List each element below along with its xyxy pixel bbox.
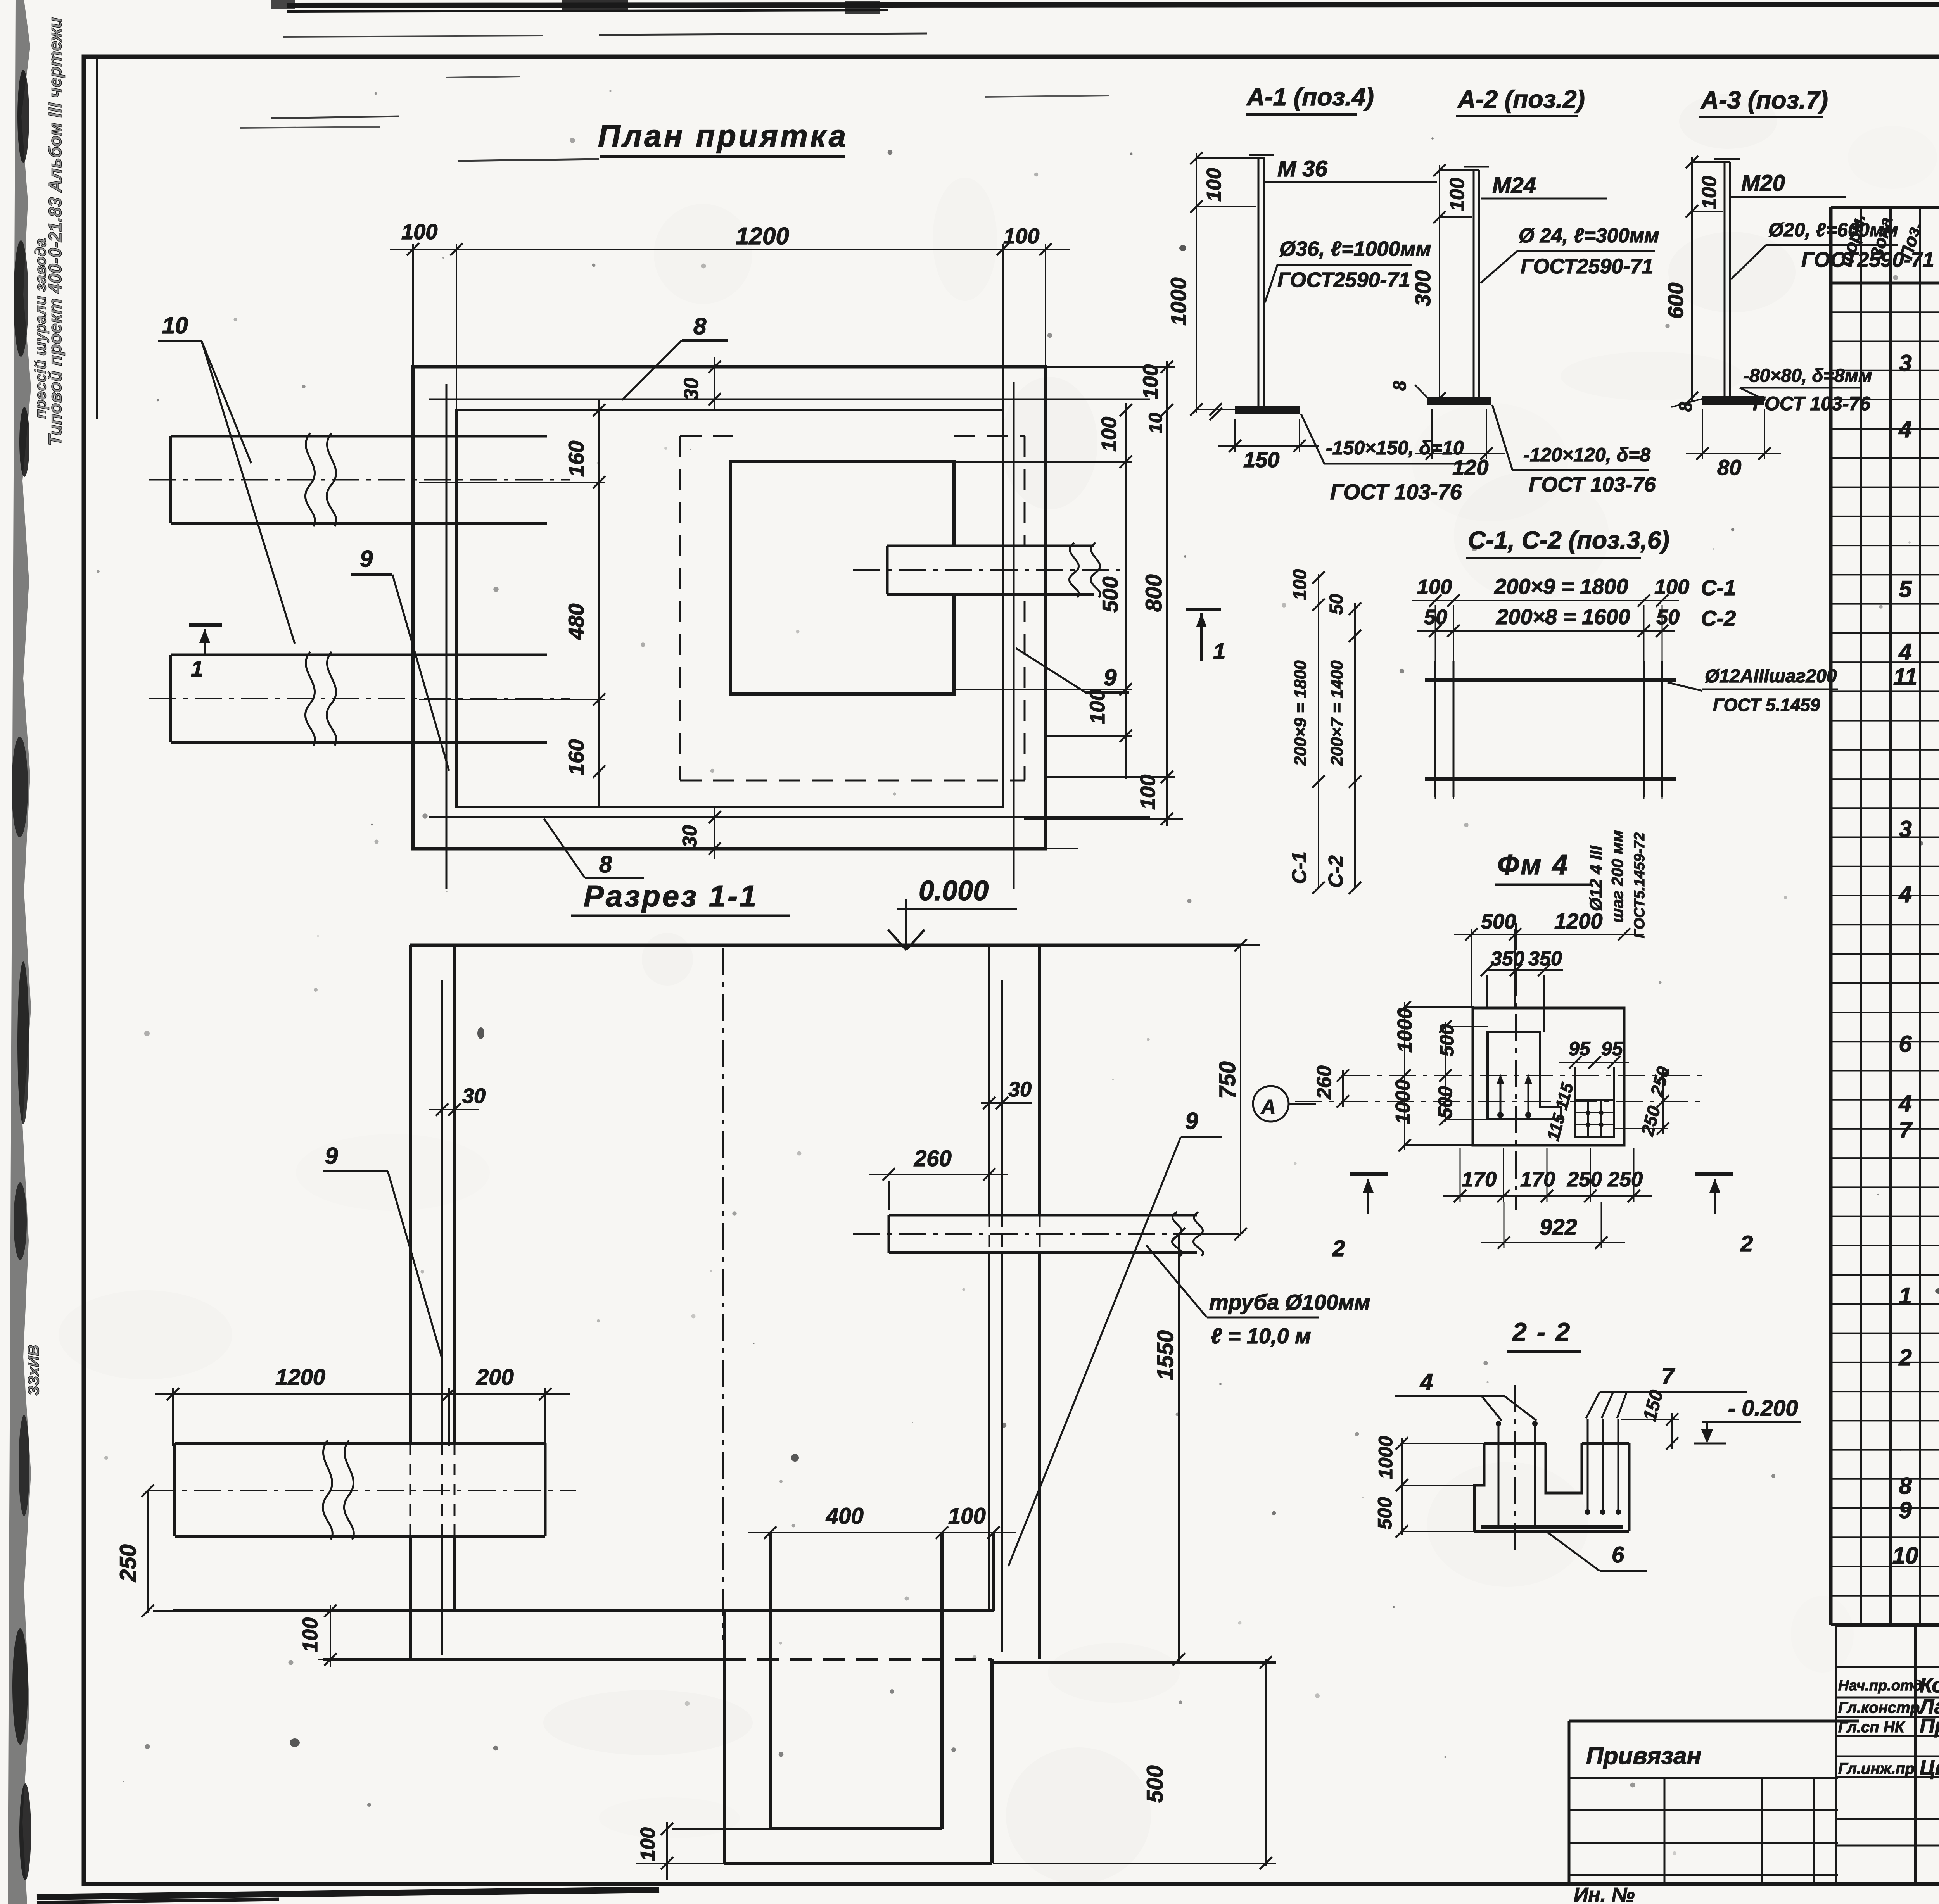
svg-text:Ø12 4 III: Ø12 4 III [1586, 845, 1605, 911]
svg-text:М20: М20 [1741, 171, 1785, 196]
svg-text:9: 9 [360, 546, 373, 572]
svg-text:200×9 = 1800: 200×9 = 1800 [1494, 574, 1628, 599]
svg-text:4: 4 [1898, 1091, 1911, 1117]
svg-text:Привязан: Привязан [1586, 1743, 1701, 1769]
svg-text:400: 400 [826, 1504, 864, 1529]
svg-text:100: 100 [299, 1617, 322, 1652]
svg-text:ГОСТ2590-71: ГОСТ2590-71 [1521, 255, 1654, 278]
svg-text:3: 3 [1899, 816, 1911, 842]
svg-text:Цветков: Цветков [1920, 1756, 1939, 1780]
svg-text:прессій шурали завода: прессій шурали завода [32, 238, 49, 419]
svg-text:А: А [1260, 1096, 1276, 1118]
svg-text:80: 80 [1717, 455, 1741, 480]
svg-text:10: 10 [1892, 1543, 1918, 1569]
svg-text:шаг 200 мм: шаг 200 мм [1608, 830, 1626, 923]
svg-text:480: 480 [564, 604, 588, 640]
svg-text:2 - 2: 2 - 2 [1512, 1317, 1571, 1346]
svg-text:9: 9 [1899, 1497, 1912, 1523]
svg-text:500: 500 [1142, 1765, 1168, 1803]
svg-text:4: 4 [1898, 416, 1911, 442]
svg-text:ГОСТ 103-76: ГОСТ 103-76 [1753, 393, 1871, 414]
svg-text:Гл.инж.пр: Гл.инж.пр [1838, 1760, 1915, 1777]
svg-text:350: 350 [1528, 948, 1562, 970]
svg-text:8: 8 [693, 313, 707, 339]
svg-text:1: 1 [1213, 639, 1225, 664]
svg-text:500: 500 [1374, 1497, 1396, 1529]
svg-text:100: 100 [1446, 178, 1469, 211]
svg-text:7: 7 [1899, 1117, 1913, 1143]
svg-text:1000: 1000 [1394, 1008, 1416, 1053]
svg-text:1000: 1000 [1392, 1079, 1414, 1124]
svg-text:ЗЗхИВ: ЗЗхИВ [25, 1345, 42, 1396]
svg-text:922: 922 [1540, 1215, 1577, 1240]
svg-text:1: 1 [1899, 1283, 1911, 1309]
svg-text:100: 100 [1097, 417, 1121, 452]
svg-text:-120×120, δ=8: -120×120, δ=8 [1523, 444, 1650, 466]
svg-text:500: 500 [1434, 1086, 1456, 1119]
svg-text:План приятка: План приятка [598, 119, 848, 153]
svg-text:С-1, С-2 (поз.3,6): С-1, С-2 (поз.3,6) [1468, 526, 1669, 554]
svg-text:600: 600 [1663, 283, 1688, 319]
svg-text:50: 50 [1326, 594, 1347, 615]
svg-text:250: 250 [1567, 1168, 1602, 1191]
svg-text:ГОСТ 5.1459: ГОСТ 5.1459 [1713, 695, 1820, 715]
svg-text:С-1: С-1 [1701, 575, 1736, 600]
svg-text:120: 120 [1452, 455, 1488, 480]
svg-text:1200: 1200 [1554, 909, 1603, 933]
svg-text:Ø 24, ℓ=300мм: Ø 24, ℓ=300мм [1519, 224, 1659, 247]
svg-text:Нач.пр.отд: Нач.пр.отд [1838, 1678, 1922, 1694]
svg-text:4: 4 [1898, 881, 1911, 907]
svg-text:30: 30 [680, 378, 703, 400]
svg-text:Фм 4: Фм 4 [1497, 849, 1569, 880]
svg-text:100: 100 [948, 1504, 986, 1529]
svg-text:200×7 = 1400: 200×7 = 1400 [1327, 660, 1346, 766]
svg-text:95: 95 [1601, 1038, 1623, 1060]
svg-text:500: 500 [1436, 1024, 1458, 1056]
svg-text:Ин. №: Ин. № [1574, 1884, 1635, 1904]
svg-text:Разрез 1-1: Разрез 1-1 [584, 879, 758, 913]
svg-text:Ø12АIIIшаг200: Ø12АIIIшаг200 [1705, 666, 1837, 687]
svg-text:-80×80, δ=8мм: -80×80, δ=8мм [1743, 366, 1872, 386]
svg-text:100: 100 [1139, 364, 1162, 399]
svg-text:100: 100 [1086, 689, 1109, 724]
svg-text:500: 500 [1098, 577, 1122, 613]
svg-text:200: 200 [476, 1365, 514, 1390]
svg-text:100: 100 [1003, 224, 1039, 248]
svg-text:2: 2 [1332, 1236, 1345, 1261]
svg-text:160: 160 [564, 739, 588, 775]
svg-text:11: 11 [1893, 664, 1917, 690]
svg-text:1000: 1000 [1375, 1436, 1396, 1479]
svg-text:30: 30 [679, 825, 701, 848]
svg-text:9: 9 [325, 1143, 338, 1169]
svg-text:труба Ø100мм: труба Ø100мм [1209, 1290, 1370, 1314]
svg-text:9: 9 [1104, 665, 1117, 690]
svg-text:750: 750 [1215, 1061, 1240, 1099]
svg-text:8: 8 [599, 851, 612, 877]
svg-text:170: 170 [1462, 1168, 1497, 1191]
svg-text:1000: 1000 [1166, 277, 1191, 326]
svg-text:30: 30 [462, 1084, 486, 1108]
svg-text:10: 10 [1146, 413, 1166, 433]
svg-text:1200: 1200 [275, 1365, 325, 1390]
svg-text:- 0.200: - 0.200 [1728, 1396, 1798, 1421]
svg-text:500: 500 [1481, 910, 1516, 933]
svg-text:ℓ = 10,0 м: ℓ = 10,0 м [1211, 1324, 1311, 1348]
svg-text:Колесов: Колесов [1920, 1674, 1939, 1697]
svg-text:ГОСТ2590-71: ГОСТ2590-71 [1277, 268, 1410, 292]
svg-text:8: 8 [1899, 1473, 1912, 1499]
svg-text:160: 160 [564, 441, 588, 477]
svg-text:2: 2 [1740, 1231, 1753, 1257]
svg-text:100: 100 [1417, 575, 1452, 599]
svg-text:100: 100 [401, 219, 437, 244]
svg-text:250: 250 [116, 1544, 141, 1582]
svg-text:6: 6 [1899, 1031, 1912, 1057]
svg-text:0.000: 0.000 [919, 875, 989, 906]
svg-text:7: 7 [1661, 1363, 1675, 1389]
svg-text:95: 95 [1569, 1038, 1591, 1060]
svg-text:4: 4 [1898, 639, 1911, 665]
svg-text:100: 100 [1654, 575, 1689, 599]
svg-text:3: 3 [1899, 350, 1911, 376]
svg-text:4: 4 [1420, 1369, 1433, 1395]
svg-text:170: 170 [1520, 1168, 1555, 1191]
svg-text:200×8 = 1600: 200×8 = 1600 [1496, 604, 1630, 629]
svg-text:М 36: М 36 [1277, 156, 1328, 181]
svg-text:М24: М24 [1492, 173, 1536, 198]
svg-text:Гл.сп НК: Гл.сп НК [1838, 1719, 1905, 1736]
svg-text:260: 260 [1313, 1065, 1336, 1100]
svg-text:А-1 (поз.4): А-1 (поз.4) [1246, 83, 1374, 111]
svg-text:6: 6 [1612, 1542, 1624, 1567]
svg-text:1550: 1550 [1153, 1330, 1178, 1380]
svg-text:30: 30 [1008, 1078, 1032, 1101]
svg-text:150: 150 [1243, 447, 1279, 472]
svg-text:А-2 (поз.2): А-2 (поз.2) [1457, 85, 1585, 113]
svg-text:Ø36, ℓ=1000мм: Ø36, ℓ=1000мм [1279, 237, 1431, 261]
svg-text:Пронин: Пронин [1920, 1714, 1939, 1738]
svg-text:ГОСТ 103-76: ГОСТ 103-76 [1330, 480, 1462, 504]
svg-text:9: 9 [1185, 1108, 1198, 1134]
svg-text:С-2: С-2 [1701, 606, 1736, 630]
svg-text:250: 250 [1607, 1168, 1643, 1191]
svg-text:350: 350 [1491, 948, 1524, 970]
svg-text:10: 10 [162, 312, 188, 338]
svg-text:ГОСТ5.1459-72: ГОСТ5.1459-72 [1631, 832, 1648, 938]
svg-text:2: 2 [1898, 1345, 1911, 1371]
svg-text:1200: 1200 [736, 223, 789, 250]
svg-text:8: 8 [1389, 381, 1410, 391]
svg-text:Гл.констр: Гл.констр [1838, 1699, 1920, 1716]
svg-text:100: 100 [1203, 168, 1225, 202]
svg-text:100: 100 [1698, 176, 1721, 209]
svg-text:200×9 = 1800: 200×9 = 1800 [1291, 660, 1310, 766]
svg-text:300: 300 [1410, 270, 1435, 306]
svg-text:800: 800 [1141, 574, 1167, 612]
svg-text:5: 5 [1899, 576, 1912, 602]
svg-text:100: 100 [637, 1827, 659, 1861]
svg-text:260: 260 [914, 1146, 952, 1171]
svg-text:ГОСТ 103-76: ГОСТ 103-76 [1529, 473, 1656, 496]
svg-text:1: 1 [191, 656, 203, 682]
svg-text:-150×150, δ=10: -150×150, δ=10 [1326, 437, 1464, 459]
svg-text:С-2: С-2 [1325, 855, 1347, 888]
svg-text:А-3 (поз.7): А-3 (поз.7) [1700, 86, 1828, 114]
svg-text:С-1: С-1 [1288, 851, 1311, 884]
svg-text:100: 100 [1136, 775, 1160, 810]
svg-text:100: 100 [1290, 569, 1310, 600]
